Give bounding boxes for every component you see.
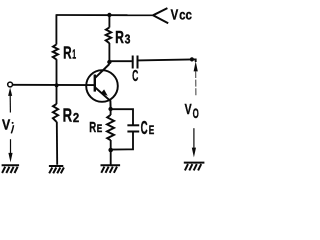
wire capacitor C to output corner (138, 59, 193, 60)
svg-text:V: V (2, 118, 10, 134)
svg-text:E: E (97, 123, 103, 135)
wire emitter node to RE (110, 109, 112, 115)
ground under R2 (49, 166, 64, 173)
arrow Vi lower (pointing down to ground) (8, 139, 12, 162)
svg-text:R: R (115, 27, 124, 47)
terminal Vcc arrow (153, 8, 168, 23)
input terminal open circle (8, 82, 13, 87)
svg-text:R: R (63, 43, 72, 63)
svg-text:3: 3 (125, 33, 131, 47)
svg-text:E: E (149, 124, 155, 137)
node base junction dot (55, 83, 59, 87)
arrow Vi upper (pointing up to input) (8, 88, 12, 113)
wire R2 top (56, 85, 58, 104)
resistor RE (107, 115, 114, 140)
label Vo (185, 102, 199, 121)
wire CE bottom to RE bottom node (111, 132, 133, 150)
svg-text:R: R (63, 104, 73, 125)
capacitor C (133, 56, 138, 69)
ground under RE (101, 165, 121, 173)
transistor Q1 circle (86, 70, 118, 102)
arrow Vo lower (pointing down to ground) (192, 128, 196, 157)
node output terminal dot (190, 57, 194, 61)
wire R1 bottom to base node (56, 59, 58, 85)
label Vi (2, 118, 14, 134)
wire R3 top drop (108, 15, 110, 28)
wire R2 bottom to ground (56, 122, 58, 165)
wire output corner down stub (192, 59, 196, 62)
label R1 (63, 43, 76, 63)
label Vcc (171, 6, 193, 23)
resistor R2 (53, 104, 58, 122)
label R2 (63, 104, 80, 125)
wire collector node to capacitor C (109, 60, 131, 62)
ground under Vi (2, 165, 20, 173)
wire RE node to ground (110, 150, 112, 165)
transistor Q1 base bar (94, 75, 96, 92)
resistor R1 (53, 44, 58, 59)
resistor R3 (106, 27, 112, 43)
svg-text:V: V (185, 102, 192, 118)
svg-text:C: C (141, 118, 148, 139)
svg-text:R: R (89, 120, 96, 136)
transistor Q1 emitter lead (95, 87, 111, 107)
node supply junction dot (107, 13, 111, 17)
wire RE bottom to node (110, 140, 112, 150)
label RE (89, 120, 102, 136)
transistor Q1 collector lead (95, 64, 110, 78)
node RE bottom junction dot (108, 148, 113, 153)
wire R1 top drop (55, 14, 57, 44)
wire input to base (12, 84, 94, 86)
ground under Vo (184, 163, 205, 171)
svg-text:O: O (193, 105, 199, 121)
svg-text:2: 2 (73, 111, 79, 125)
svg-text:C: C (132, 68, 138, 85)
svg-text:V: V (171, 6, 179, 23)
arrow Vo upper (pointing up to output) (194, 61, 198, 96)
wire emitter node to CE top (111, 109, 133, 124)
label R3 (115, 27, 130, 47)
node emitter junction dot (108, 107, 112, 111)
node collector junction dot (107, 60, 111, 64)
svg-text:1: 1 (72, 47, 76, 62)
label CE (141, 118, 155, 139)
wire R3 bottom to collector node (108, 43, 110, 62)
svg-text:cc: cc (179, 6, 192, 22)
wire top supply rail (56, 14, 153, 16)
transistor Q1 emitter arrow (101, 89, 108, 96)
capacitor CE (127, 125, 139, 131)
